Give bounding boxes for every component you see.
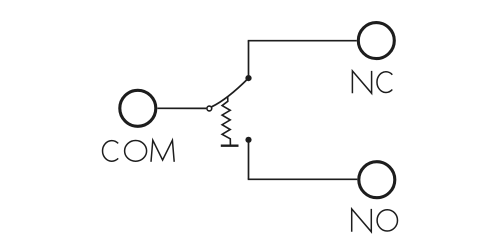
letter O: [125, 141, 147, 162]
wire COM to pivot: [158, 107, 207, 109]
terminal NC: [358, 23, 394, 59]
letter N: [352, 71, 371, 93]
label NO: [352, 209, 398, 232]
switch arm (movable blade): [212, 78, 249, 107]
node NC junction dot: [245, 75, 251, 81]
wire NC vertical: [248, 41, 250, 78]
letter N: [352, 209, 372, 232]
terminal NO: [359, 162, 395, 198]
letter C: [377, 72, 392, 93]
wire NO horizontal: [248, 178, 358, 180]
pivot contact (open circle): [207, 106, 212, 111]
wire NC horizontal: [248, 40, 357, 42]
letter O: [377, 210, 397, 231]
terminal COM: [120, 90, 156, 126]
spring (return spring zigzag): [222, 96, 230, 144]
letter M: [151, 140, 174, 162]
letter C: [103, 141, 119, 162]
wire NO vertical: [248, 140, 250, 180]
label COM: [103, 140, 175, 162]
anchor bar: [221, 145, 239, 147]
node NO junction dot: [245, 137, 251, 143]
label NC: [352, 71, 392, 93]
